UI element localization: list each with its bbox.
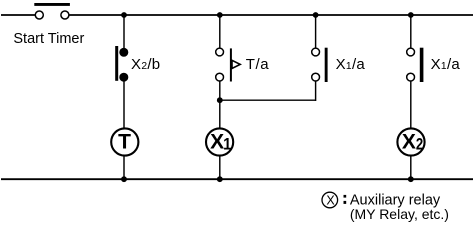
wire from coil X1 to bottom rail: [219, 156, 221, 179]
coil T (timer coil): [111, 128, 138, 155]
svg-text:Start Timer: Start Timer: [13, 31, 84, 47]
node junction on top rail above X1/a second: [408, 12, 414, 18]
wire vertical from first X1/a bottom to horizontal wire: [315, 81, 317, 101]
node junction on top rail above T/a: [217, 12, 223, 18]
contact X1/a (second, normally-open a-contact of relay X1): [407, 48, 424, 82]
svg-text:X: X: [402, 131, 416, 154]
coil X2 (auxiliary relay X2 coil): [397, 128, 424, 155]
wire top rail right segment: [69, 14, 473, 16]
node junction bottom rail below coil T: [121, 176, 127, 182]
svg-text:X: X: [210, 131, 224, 154]
svg-text:(MY Relay, etc.): (MY Relay, etc.): [350, 206, 449, 222]
pushbutton PB (Start Timer, NO contact): [34, 3, 70, 19]
legend: circled X symbol: [322, 192, 338, 208]
wire from coil X2 to bottom rail: [410, 156, 412, 179]
svg-text:T: T: [118, 130, 131, 153]
wire from top rail down to first contact X1/a: [315, 15, 317, 48]
node junction bottom rail below coil X2: [408, 176, 414, 182]
svg-text:X: X: [326, 193, 335, 207]
wire top rail left segment: [1, 14, 35, 16]
wire from coil T to bottom rail: [123, 156, 125, 179]
wire bottom rail: [1, 178, 473, 180]
wire from top rail down to second contact X1/a: [410, 15, 412, 48]
contact X1/a (first, normally-open a-contact of relay X1): [312, 48, 328, 82]
coil X1 (auxiliary relay X1 coil): [206, 128, 233, 155]
wire from second contact X1/a down to coil X2: [410, 81, 412, 129]
contact T/a (on-delay timer a-contact): [216, 48, 240, 81]
wire horizontal from node A to bottom of first X1/a: [220, 99, 316, 101]
svg-text:1: 1: [223, 136, 232, 154]
node junction on top rail above X2/b: [121, 12, 127, 18]
wire from contact T/a down to node A: [219, 81, 221, 129]
node junction on top rail above X1/a first: [313, 12, 319, 18]
wire from contact X2/b down to coil T: [123, 81, 125, 129]
node A (junction of T/a, X1/a branch and coil X1): [217, 97, 223, 103]
svg-text:2: 2: [416, 135, 423, 154]
legend text ": Auxiliary relay": [344, 195, 347, 198]
node junction bottom rail below coil X1: [217, 176, 223, 182]
contact X2/b (normally-closed b-contact of relay X2): [115, 46, 128, 82]
wire from top rail down to contact X2/b: [123, 15, 125, 49]
svg-text:T/a: T/a: [246, 56, 269, 73]
wire from top rail down to contact T/a: [219, 15, 221, 48]
